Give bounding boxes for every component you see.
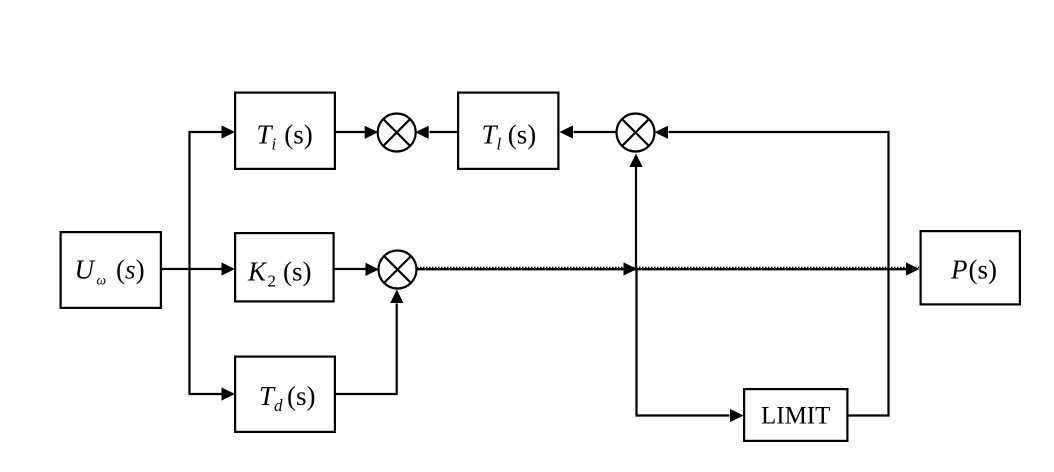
arrowhead on main line at junction x=636.5 (624, 262, 638, 275)
arrowhead into P(s) (906, 262, 920, 275)
wire Ti(s) output to S1 (336, 131, 365, 133)
wire junction vertical down and over to LIMIT (637, 268, 730, 416)
block LIMIT (744, 389, 847, 441)
svg-text:Ti(s): Ti(s) (257, 120, 313, 154)
arrowhead into S3 left (366, 263, 380, 276)
block P(s) (921, 231, 1020, 304)
wire branch vertical from top row to Td row at x=189.5 (188, 131, 190, 394)
arrowhead into Tl(s) right edge (560, 125, 574, 138)
wire feedback vertical at x=888.5 from LIMIT output up to top row (887, 131, 889, 416)
wire U_w(s) output to K2(s) (161, 268, 222, 270)
block Td(s) (235, 357, 335, 432)
wire into Ti(s) (189, 131, 223, 133)
wire junction vertical up into S2 (635, 167, 637, 269)
wire branch into Td(s) (189, 393, 223, 395)
svg-text:P(s): P(s) (950, 255, 997, 285)
wire main line S3 output to P(s) (417, 268, 907, 270)
block Ti(s) (235, 93, 335, 169)
arrowhead into Ti(s) (222, 125, 236, 138)
arrowhead into S1 left (365, 126, 379, 139)
svg-text:Td(s): Td(s) (259, 381, 316, 415)
arrowhead into LIMIT (730, 409, 744, 422)
arrowhead into K2(s) (222, 262, 236, 275)
wire K2(s) output to S3 (334, 268, 367, 270)
wire feedback top run into S2 (669, 131, 889, 133)
arrowhead into S1 right (415, 126, 429, 139)
arrowhead into S3 bottom (390, 290, 403, 304)
arrowhead into Td(s) (222, 387, 236, 400)
summing junction S2 (top-right circle with X) (617, 114, 655, 152)
wire Td(s) output over and up to S3 (336, 304, 397, 395)
svg-text:Tl(s): Tl(s) (482, 120, 537, 154)
block Tl(s) (458, 93, 558, 169)
arrowhead into S2 bottom (629, 154, 642, 168)
summing junction S3 (middle circle with X) (379, 251, 417, 289)
block U_w(s) (61, 232, 161, 308)
block K2(s) (235, 233, 334, 301)
wire LIMIT output to feedback vertical (848, 414, 890, 416)
arrowhead into S2 right (655, 126, 669, 139)
wire S2 output to Tl(s) (574, 131, 617, 133)
wire Tl(s) output to S1 (430, 131, 459, 133)
dotted overlay above main line (417, 266, 919, 268)
svg-text:LIMIT: LIMIT (761, 403, 830, 430)
summing junction S1 (top-left circle with X) (378, 114, 416, 152)
